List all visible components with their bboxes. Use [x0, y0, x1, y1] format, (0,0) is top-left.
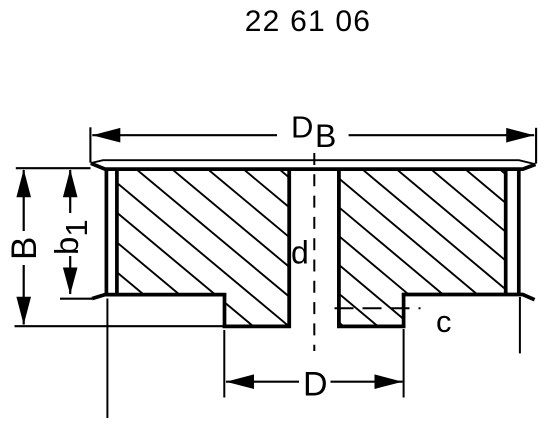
DB dimension line right [349, 134, 535, 136]
left rim inner line [115, 169, 119, 295]
right thin vertical line [519, 297, 521, 353]
body bottom right line with wedge [402, 295, 535, 300]
hatching right block [320, 19, 520, 424]
b1 bottom extension tick [60, 298, 92, 300]
DB left arrowhead [92, 128, 120, 143]
svg-text:B: B [5, 237, 44, 260]
B dimension line [23, 170, 25, 231]
hub bottom right segment [337, 325, 406, 329]
b1 bottom arrowhead [63, 268, 78, 295]
hub left edge [223, 293, 227, 328]
DB right arrowhead [506, 128, 534, 143]
D right extension line [403, 329, 405, 398]
right rim inner line [504, 169, 508, 295]
svg-text:b1: b1 [48, 219, 94, 255]
D left extension line [223, 330, 225, 398]
right rim outer line [517, 169, 521, 295]
flange top thin line [91, 160, 536, 164]
left rim outer line [105, 169, 109, 295]
svg-text:D: D [303, 366, 328, 404]
B bottom reference line [15, 325, 225, 327]
hatching left block [100, 20, 300, 424]
D left arrowhead [226, 374, 254, 389]
svg-text:D: D [291, 110, 313, 145]
svg-text:22 61 06: 22 61 06 [245, 5, 371, 38]
D right arrowhead [375, 374, 403, 389]
DB dimension line left [92, 134, 277, 136]
body bottom left line with wedge [92, 295, 226, 299]
flange bottom thick line [91, 163, 536, 169]
c reference dashed line [335, 307, 421, 309]
center line dashed [313, 153, 315, 351]
svg-text:B: B [315, 118, 336, 154]
svg-text:d: d [291, 235, 309, 271]
hub bottom left segment [223, 325, 291, 329]
B top arrowhead [16, 169, 31, 197]
B bottom arrowhead [16, 297, 31, 325]
bore left edge [287, 169, 291, 328]
DB left extension line [89, 127, 91, 162]
D dimension line left [226, 381, 299, 383]
svg-text:c: c [436, 304, 452, 339]
hub right edge [402, 293, 406, 328]
D dimension line right [331, 381, 403, 383]
left shaft line [106, 299, 108, 419]
top extension line for B and b1 [16, 167, 91, 169]
DB right extension line [535, 128, 537, 164]
bore right edge [337, 169, 341, 328]
b1 dimension line [69, 170, 71, 213]
b1 top arrowhead [63, 169, 78, 197]
